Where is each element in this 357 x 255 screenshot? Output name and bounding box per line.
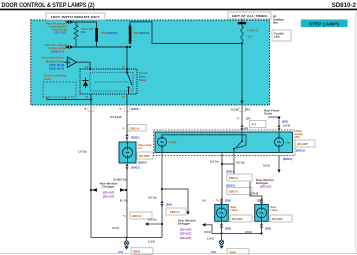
K2 top arrow <box>128 24 131 27</box>
junction dot K2 bottom <box>129 46 131 48</box>
svg-text:P/W [SD105]: P/W [SD105] <box>102 31 118 35</box>
cargo lamp bulb <box>158 138 167 147</box>
svg-text:0.5 Ga-B: 0.5 Ga-B <box>110 115 121 119</box>
svg-text:DOOR CONTROL & STEP LAMPS (2): DOOR CONTROL & STEP LAMPS (2) <box>2 3 95 9</box>
svg-text:Defogger: Defogger <box>102 185 115 189</box>
node label: Rear P/Liftgate & Step Lamps <box>45 43 68 54</box>
inline connector <box>125 163 128 166</box>
assembly dashed enclosure <box>154 130 296 156</box>
svg-text:0.5 W: 0.5 W <box>283 124 290 128</box>
svg-text:0.5 B: 0.5 B <box>112 226 119 230</box>
wire: 30 terminal drop from bottom feed <box>126 46 128 48</box>
svg-text:0.5 Ga: 0.5 Ga <box>148 218 157 222</box>
wire: cargo lamp ground drop <box>161 153 163 238</box>
svg-text:EM11-B: EM11-B <box>132 214 141 218</box>
wire: bottom feed y46.5 <box>73 46 131 48</box>
svg-text:EM12-A: EM12-A <box>170 210 180 214</box>
junction dots on right ground bus <box>220 232 222 234</box>
svg-text:Lamp: Lamp <box>271 208 278 212</box>
fuse bar (fusible link top) <box>238 22 246 24</box>
relay switch contact <box>126 72 128 74</box>
svg-text:W/LAMP: W/LAMP <box>272 217 283 221</box>
wire op-amp output to relay coil <box>77 62 91 69</box>
wire: step lamp LH feed <box>126 105 128 142</box>
svg-text:W/LAMP: W/LAMP <box>232 217 243 221</box>
svg-text:[SD811]: [SD811] <box>268 115 278 119</box>
svg-text:[EM13]: [EM13] <box>283 157 292 161</box>
svg-text:0.5 B: 0.5 B <box>204 230 211 234</box>
svg-text:(sub): (sub) <box>44 77 51 81</box>
wire to box2 <box>234 164 262 204</box>
svg-text:HOT WITH SMART KEY: HOT WITH SMART KEY <box>51 16 101 19</box>
svg-text:10k: 10k <box>81 30 86 34</box>
svg-text:Link: Link <box>274 35 280 39</box>
label box: HOT AT ALL TIMES (left) <box>46 13 105 20</box>
svg-text:[SD-107]: [SD-107] <box>103 195 114 199</box>
step lamp box front RH <box>255 205 269 222</box>
step lamp box front LH <box>215 205 229 222</box>
op-amp buffer U1 <box>65 61 68 63</box>
relay coil inner dotted box <box>90 73 133 92</box>
defogger ground text block <box>178 219 197 240</box>
svg-text:EM14-C: EM14-C <box>229 176 239 180</box>
junction dot fuse bottom <box>241 42 243 44</box>
svg-text:0.5 B: 0.5 B <box>263 164 270 168</box>
svg-text:Lamp: Lamp <box>231 208 238 212</box>
svg-text:1.0 Ga: 1.0 Ga <box>78 150 87 154</box>
lamp2 (RH in bar) <box>275 138 284 147</box>
svg-text:Relay: Relay <box>139 78 147 82</box>
branch arrow left on cargo ground wire <box>161 223 163 225</box>
svg-text:[SEE SD-9]: [SEE SD-9] <box>49 66 64 70</box>
wire from K2 top to fuse <box>130 22 242 44</box>
bulb <box>217 208 227 218</box>
svg-text:W/LAMP: W/LAMP <box>139 154 150 158</box>
wire: left vertical from relay 86 <box>90 105 92 238</box>
fusible link label box <box>272 30 291 41</box>
svg-text:SD810-2: SD810-2 <box>332 2 357 9</box>
svg-text:GM03: GM03 <box>133 250 141 254</box>
svg-text:[EM]: [EM] <box>265 227 271 231</box>
junction dot relay 85 <box>89 68 91 70</box>
svg-text:0.5 Ga: 0.5 Ga <box>210 160 219 164</box>
svg-text:0.5 W: 0.5 W <box>231 108 239 112</box>
border crossing marker boxes <box>88 105 94 111</box>
I/P auxiliary box label <box>273 15 285 25</box>
svg-text:LH: LH <box>138 146 142 150</box>
arrow pair into node B <box>65 45 69 49</box>
label box: HOT AT ALL TIMES (right) <box>228 12 271 19</box>
svg-text:[EM]: [EM] <box>225 227 231 231</box>
power door relay box <box>80 69 137 94</box>
rear junction block enclosure (big cyan dashed box) <box>31 20 270 105</box>
svg-text:[IP]: [IP] <box>246 117 250 121</box>
node label: Rear Passenger Compartment Fuse Block <box>46 22 68 35</box>
inline connector on wire <box>125 133 128 136</box>
svg-text:Defogger: Defogger <box>178 222 191 226</box>
svg-text:[EM11]: [EM11] <box>131 107 139 111</box>
svg-text:10A: 10A <box>247 35 252 39</box>
arrow at border crossing <box>240 101 243 104</box>
ground symbol right <box>219 240 223 244</box>
svg-text:[IP]: [IP] <box>244 127 248 131</box>
connector bar K1 <box>95 28 98 42</box>
svg-text:EM11-B: EM11-B <box>130 127 139 131</box>
title rule <box>0 9 357 11</box>
svg-text:GM04: GM04 <box>229 251 237 255</box>
STEP LAMPS heading box <box>301 20 348 28</box>
wire below lamp LH <box>126 163 128 238</box>
wire: relay 87 drop <box>126 94 128 105</box>
svg-text:1.0 B: 1.0 B <box>148 240 155 244</box>
svg-text:[EM12]: [EM12] <box>131 166 140 170</box>
wire: top feed y22 <box>73 22 97 28</box>
lamp loop wire <box>162 135 246 146</box>
svg-text:0.75 B: 0.75 B <box>250 192 258 196</box>
page right border <box>354 12 357 253</box>
svg-text:HOT AT ALL TIMES: HOT AT ALL TIMES <box>232 15 268 18</box>
lamp2 feed label and arrow <box>264 109 280 120</box>
lamp bulb LH <box>123 148 133 158</box>
ground drop right <box>221 234 223 241</box>
bulb <box>257 208 267 218</box>
page footer rule <box>0 252 357 255</box>
step lamp LH box <box>119 142 136 163</box>
defogger jog branch from cargo wire <box>161 188 163 190</box>
ground bus left <box>91 237 162 239</box>
node label: From Front Door Module <box>42 56 65 71</box>
fuse F27 zigzag <box>241 24 243 43</box>
svg-text:P/D [SD104]: P/D [SD104] <box>134 31 149 35</box>
svg-text:0.5 Ga: 0.5 Ga <box>118 178 127 182</box>
relay diode D1 <box>83 80 89 82</box>
svg-text:RH: RH <box>296 135 300 139</box>
svg-text:[EM13]: [EM13] <box>296 149 305 153</box>
svg-text:0.5: 0.5 <box>202 199 206 203</box>
svg-text:B. Ga: B. Ga <box>120 199 128 203</box>
connector pair above box2 <box>260 198 263 201</box>
defogger reference branch <box>90 189 92 191</box>
svg-text:IP-F: IP-F <box>252 123 257 127</box>
wire: relay 86 to sub box <box>47 98 91 100</box>
K2 bottom arrow <box>128 42 131 45</box>
svg-text:Box: Box <box>273 20 278 24</box>
svg-text:[EM]: [EM] <box>166 203 172 207</box>
svg-text:1.4w: 1.4w <box>285 142 290 145</box>
switch in bar <box>241 140 243 142</box>
wire label box2 to fuse bar <box>241 19 243 22</box>
svg-text:[EM]: [EM] <box>282 120 288 124</box>
wires below boxes to ground bus <box>221 221 223 233</box>
svg-text:[EM]: [EM] <box>225 199 231 203</box>
svg-text:EM15-C: EM15-C <box>229 190 239 194</box>
svg-text:W/LAMP: W/LAMP <box>297 142 308 146</box>
connector label box EM <box>128 125 146 132</box>
arrow pair into node A <box>65 20 69 24</box>
inline connector <box>160 200 163 203</box>
wire below lamp2: to rear outlet <box>278 156 280 170</box>
svg-text:[SD-107]: [SD-107] <box>260 185 271 189</box>
connector pair above box1 <box>220 198 223 201</box>
svg-text:FUSE 27: FUSE 27 <box>247 29 259 33</box>
wires above box1: bracket from bar <box>221 153 223 205</box>
resistor pull-up <box>74 22 78 47</box>
wire: main right drop <box>241 44 243 106</box>
svg-text:0.5 Ga: 0.5 Ga <box>236 161 245 165</box>
svg-text:[SD-107]: [SD-107] <box>180 236 191 240</box>
svg-text:[SD810-1]: [SD810-1] <box>51 50 64 54</box>
connector bar K2 <box>129 27 132 42</box>
arrow from defogger ground into right ground bus <box>202 223 206 227</box>
svg-text:[IP]: [IP] <box>245 108 250 112</box>
svg-text:[EM12]: [EM12] <box>138 161 147 165</box>
assembly cyan body <box>155 132 293 153</box>
svg-text:Lamp: Lamp <box>169 140 177 144</box>
svg-text:[SD-107]: [SD-107] <box>55 31 66 35</box>
ground symbol GM left <box>126 238 128 242</box>
svg-text:[EM15]: [EM15] <box>226 184 235 188</box>
wire below K1 <box>96 42 98 48</box>
svg-text:STEP LAMPS: STEP LAMPS <box>309 21 339 26</box>
svg-text:[EM11]: [EM11] <box>131 136 139 140</box>
inline connectors below boxes <box>220 223 223 226</box>
feed from fuse into bar <box>241 105 243 132</box>
svg-text:[EM14]: [EM14] <box>226 170 235 174</box>
svg-text:0.5 Ga: 0.5 Ga <box>148 196 157 200</box>
svg-text:0.5 B: 0.5 B <box>245 230 252 234</box>
svg-text:1.0 B: 1.0 B <box>207 237 214 241</box>
